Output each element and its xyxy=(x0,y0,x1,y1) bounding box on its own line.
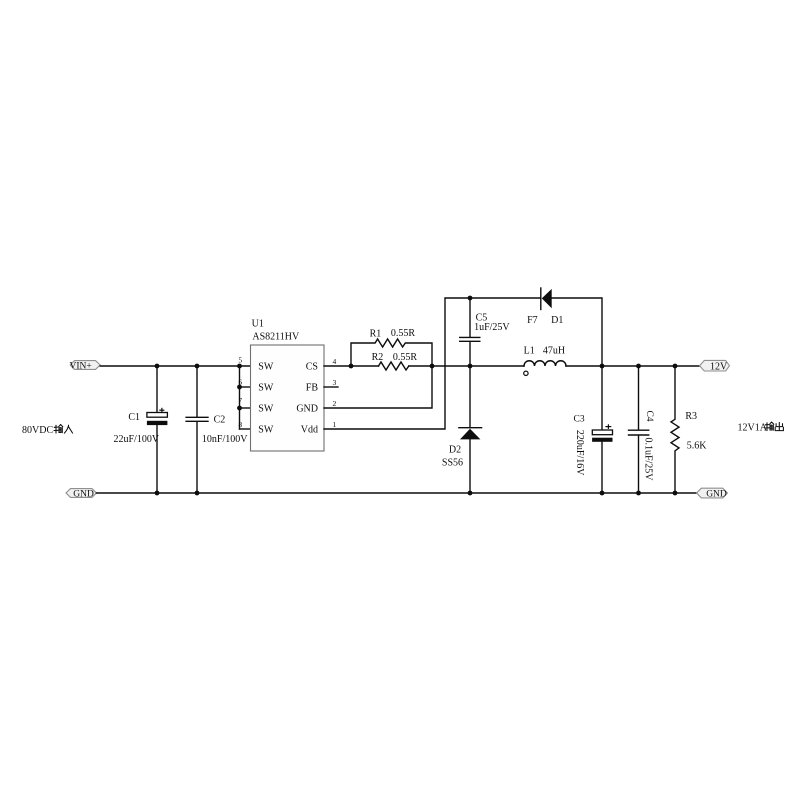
capacitor C2 xyxy=(186,366,248,493)
svg-text:C1: C1 xyxy=(128,412,140,423)
capacitor C3 xyxy=(574,366,613,493)
svg-text:SS56: SS56 xyxy=(442,457,463,468)
svg-text:D1: D1 xyxy=(551,315,563,326)
port GND left xyxy=(66,489,96,500)
svg-text:5: 5 xyxy=(238,356,242,365)
hanzi shu (output) xyxy=(765,422,774,431)
wire pin6 stub xyxy=(240,386,251,388)
wire FB pin3 stub xyxy=(324,386,338,388)
port GND right xyxy=(697,488,728,499)
diode D2 SS56 xyxy=(442,366,482,493)
node gnd / C3 xyxy=(600,491,605,496)
svg-text:SW: SW xyxy=(258,404,274,415)
svg-text:F7: F7 xyxy=(527,315,538,326)
svg-text:R1: R1 xyxy=(370,328,382,339)
IC U1 AS8211HV xyxy=(251,319,325,451)
svg-text:0.55R: 0.55R xyxy=(393,352,418,363)
svg-text:12V: 12V xyxy=(710,361,728,372)
node top rail / C5 xyxy=(468,296,473,301)
node gnd / R3 xyxy=(673,491,678,496)
svg-text:AS8211HV: AS8211HV xyxy=(252,332,300,343)
svg-text:6: 6 xyxy=(238,378,242,387)
inductor L1 47uH xyxy=(524,345,566,375)
svg-text:80VDC: 80VDC xyxy=(22,425,53,436)
node gnd / D2 xyxy=(468,491,473,496)
wire pin7 stub xyxy=(240,407,251,409)
svg-text:FB: FB xyxy=(306,383,319,394)
svg-text:U1: U1 xyxy=(252,319,264,330)
node gnd / C2 xyxy=(195,491,200,496)
svg-text:L1: L1 xyxy=(524,345,535,356)
svg-text:0.1uF/25V: 0.1uF/25V xyxy=(643,437,654,481)
node main / R3 xyxy=(673,364,678,369)
hanzi shu (input) xyxy=(54,425,63,434)
svg-text:3: 3 xyxy=(333,378,337,387)
node main wire / C5 / D2 xyxy=(468,364,473,369)
svg-text:8: 8 xyxy=(238,420,242,429)
svg-text:5.6K: 5.6K xyxy=(687,441,708,452)
svg-text:2: 2 xyxy=(333,399,337,408)
node SW bus / pin5 xyxy=(237,364,242,369)
svg-text:GND: GND xyxy=(296,404,318,415)
port 12V xyxy=(700,360,730,372)
resistor R3 5.6K xyxy=(671,366,707,493)
wire L1 to 12V port xyxy=(566,365,700,367)
svg-text:VIN+: VIN+ xyxy=(70,361,92,371)
wire ground rail xyxy=(96,492,696,494)
hanzi chu (exit) xyxy=(775,422,783,430)
svg-text:Vdd: Vdd xyxy=(301,425,318,436)
node gnd / C1 xyxy=(155,491,160,496)
node main wire / C2 xyxy=(195,364,200,369)
svg-text:GND: GND xyxy=(73,489,94,499)
svg-text:C2: C2 xyxy=(214,415,226,426)
svg-text:GND: GND xyxy=(706,489,727,499)
node CS / R1 left xyxy=(349,364,354,369)
node R right / main wire xyxy=(430,364,435,369)
svg-text:1uF/25V: 1uF/25V xyxy=(474,322,510,333)
svg-text:22uF/100V: 22uF/100V xyxy=(114,434,160,445)
wire pin8 stub xyxy=(240,428,251,430)
capacitor C1 xyxy=(114,366,168,493)
svg-text:C3: C3 xyxy=(574,415,585,425)
svg-text:CS: CS xyxy=(306,362,318,373)
resistor R2 0.55R xyxy=(372,352,418,370)
label 80VDC input xyxy=(22,425,73,437)
svg-text:C4: C4 xyxy=(644,410,654,421)
svg-text:D2: D2 xyxy=(449,444,461,455)
label 12V1A output xyxy=(738,422,784,434)
svg-text:12V1A: 12V1A xyxy=(738,423,768,434)
resistor R1 0.55R xyxy=(351,328,432,366)
node SW bus / pin7 xyxy=(237,406,242,411)
wire VIN+ to U1 pin5 xyxy=(100,365,250,367)
svg-text:10nF/100V: 10nF/100V xyxy=(202,434,248,445)
svg-text:7: 7 xyxy=(238,396,242,405)
svg-text:R3: R3 xyxy=(685,411,697,422)
wire main to L1 xyxy=(409,365,524,367)
wire GND pin2 routing xyxy=(324,366,432,408)
wire Vdd pin1 to top rail xyxy=(324,298,540,429)
hanzi ru (enter) xyxy=(64,425,72,433)
svg-text:SW: SW xyxy=(258,425,274,436)
svg-text:1: 1 xyxy=(333,420,337,429)
svg-text:R2: R2 xyxy=(372,352,384,363)
svg-text:SW: SW xyxy=(258,383,274,394)
node main / C4 xyxy=(636,364,641,369)
wire SW bus vertical xyxy=(239,366,241,429)
node SW bus / pin6 xyxy=(237,385,242,390)
diode D1 (F7) xyxy=(527,288,563,326)
wire top rail D1 to C3 corner xyxy=(552,298,602,366)
wire CS pin4 xyxy=(324,365,379,367)
node main wire / C1 xyxy=(155,364,160,369)
capacitor C5 xyxy=(460,298,511,366)
svg-text:47uH: 47uH xyxy=(543,345,565,356)
capacitor C4 xyxy=(629,366,654,493)
node main / C3 xyxy=(600,364,605,369)
svg-text:220uF/16V: 220uF/16V xyxy=(574,430,585,476)
svg-text:4: 4 xyxy=(333,357,337,366)
node gnd / C4 xyxy=(636,491,641,496)
port VIN+ xyxy=(70,361,101,372)
svg-text:SW: SW xyxy=(258,362,274,373)
svg-text:0.55R: 0.55R xyxy=(391,328,416,339)
